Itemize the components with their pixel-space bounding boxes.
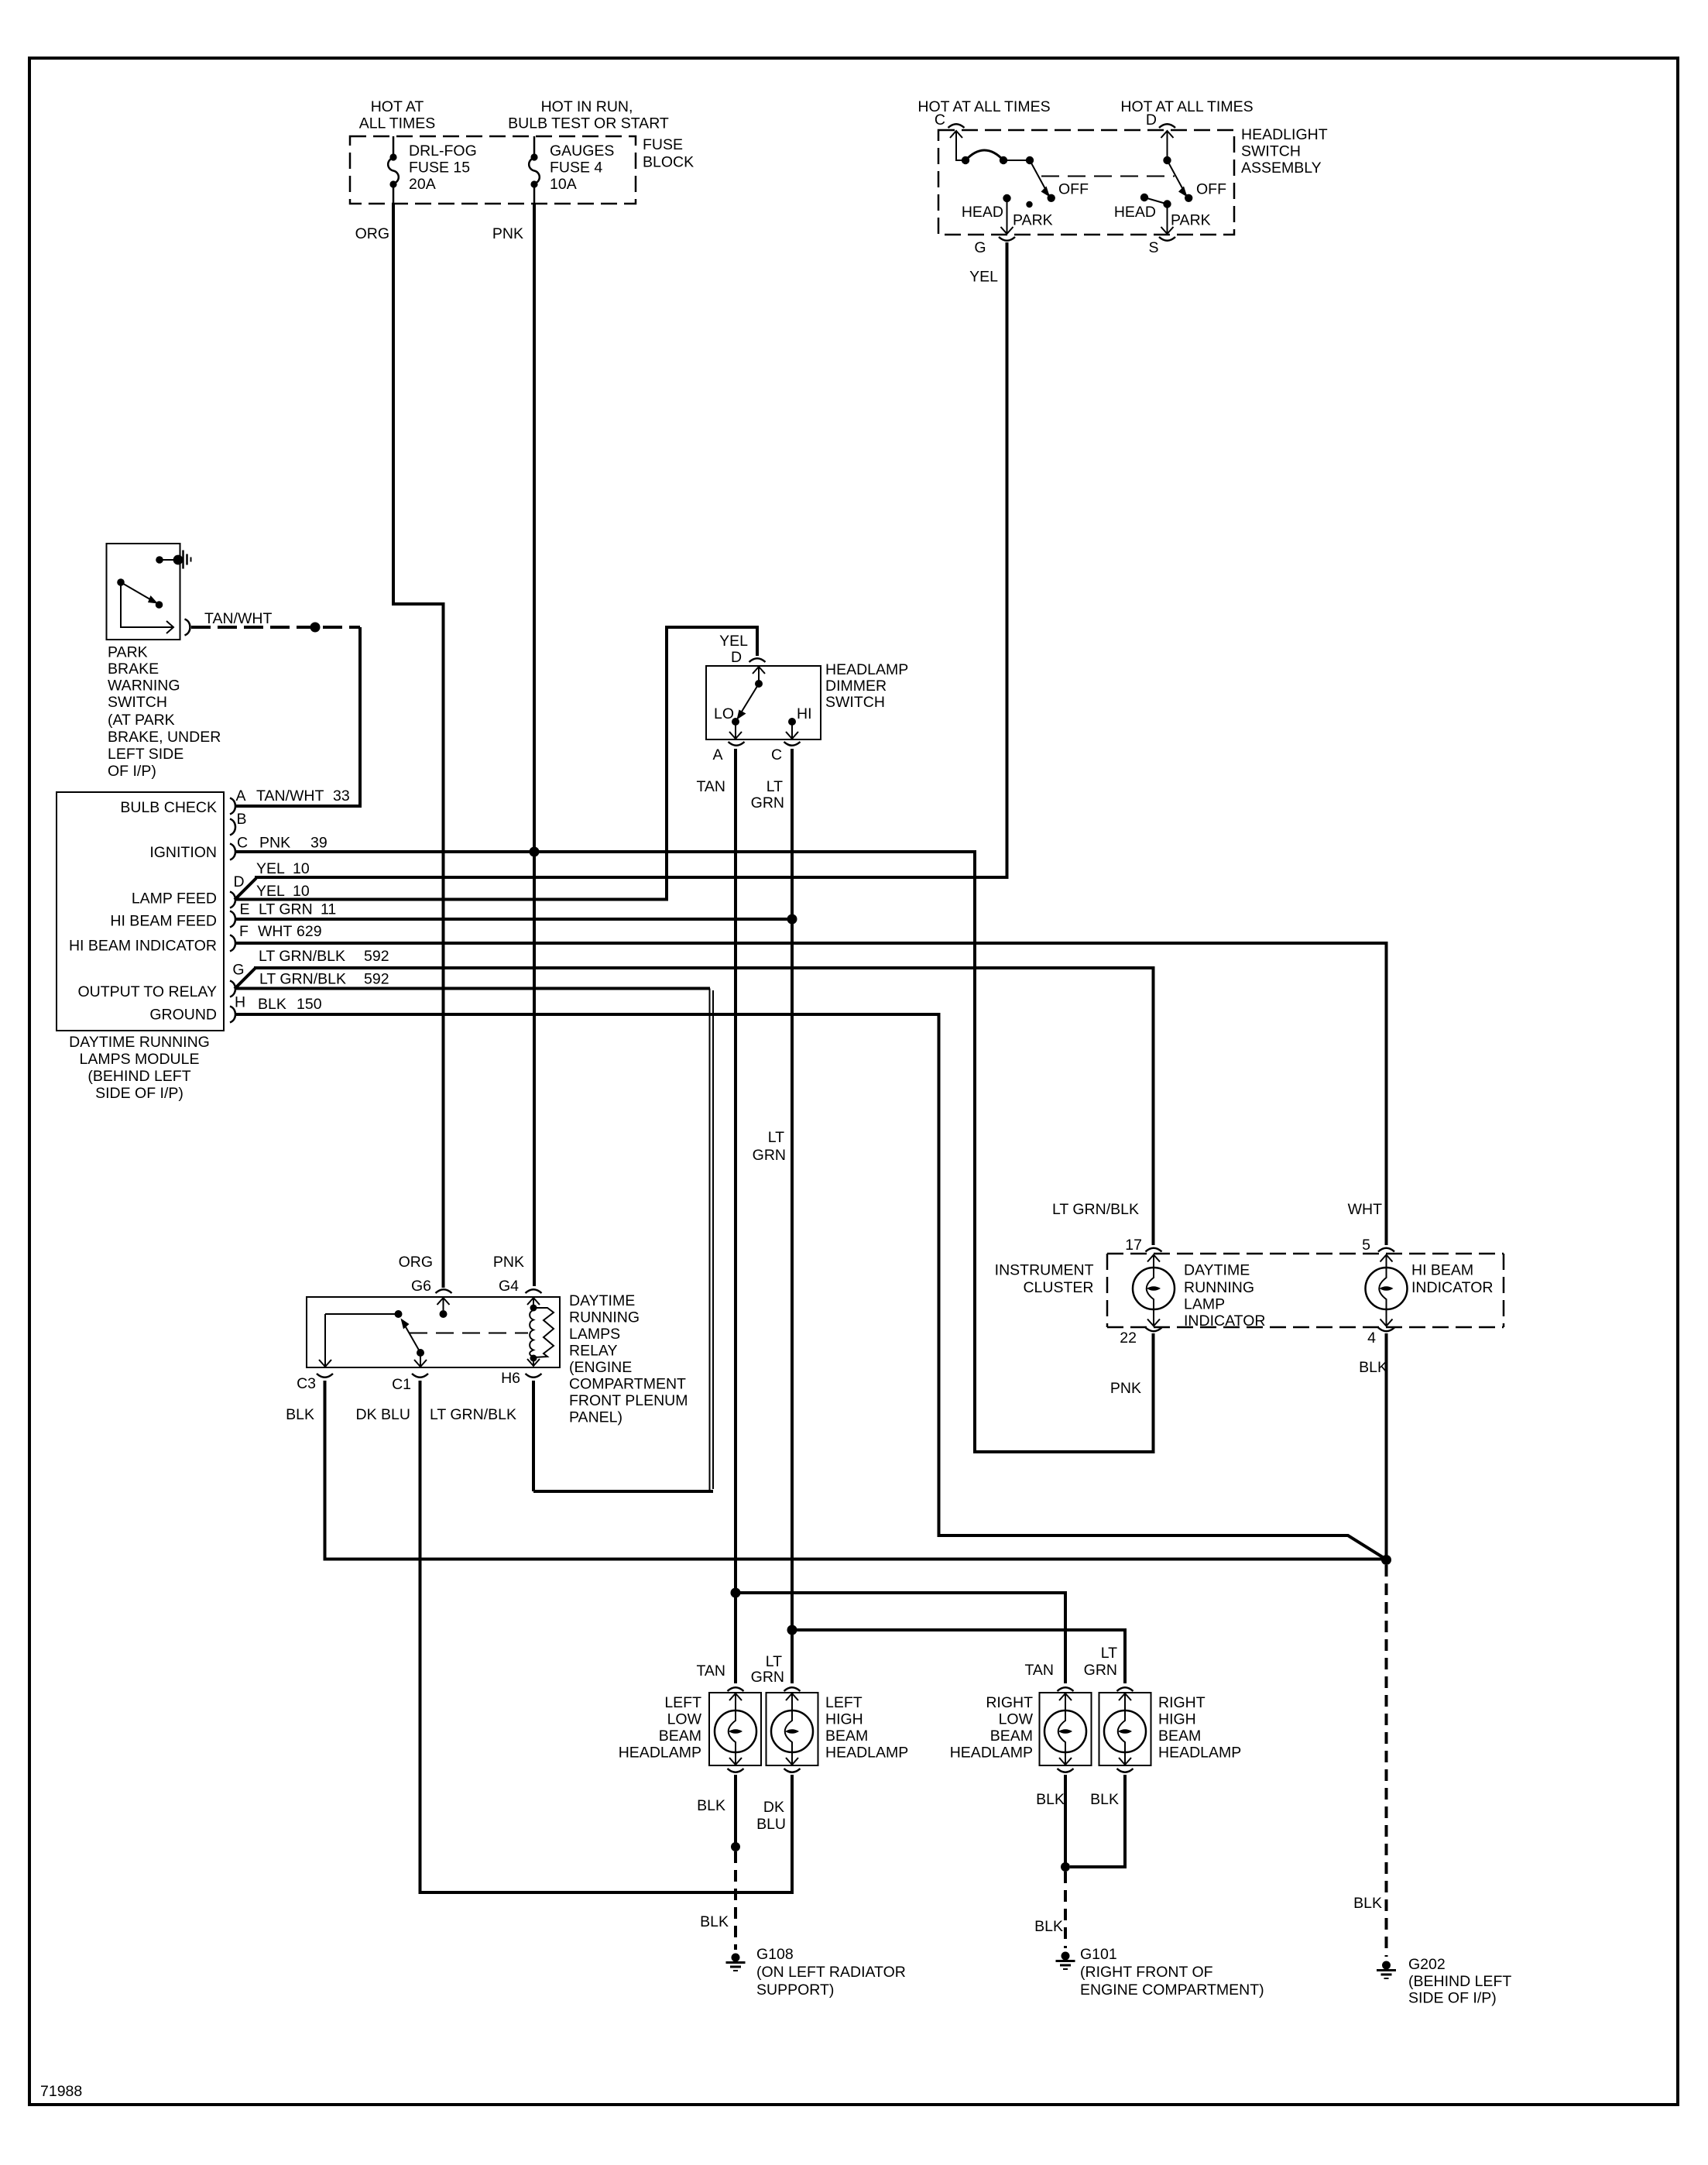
svg-text:BLK: BLK bbox=[286, 1406, 314, 1423]
svg-text:BLU: BLU bbox=[756, 1816, 786, 1833]
svg-text:GRN: GRN bbox=[751, 794, 784, 811]
svg-text:PNK: PNK bbox=[493, 1254, 524, 1271]
svg-text:HOT AT ALL TIMES: HOT AT ALL TIMES bbox=[1120, 98, 1253, 115]
svg-text:HOT IN RUN,: HOT IN RUN, bbox=[541, 98, 633, 115]
svg-text:BLK: BLK bbox=[1090, 1791, 1119, 1808]
svg-text:BLK: BLK bbox=[700, 1913, 729, 1930]
svg-text:C3: C3 bbox=[297, 1375, 316, 1392]
svg-text:DRL-FOG: DRL-FOG bbox=[409, 142, 477, 160]
svg-text:G: G bbox=[232, 962, 244, 979]
svg-text:OFF: OFF bbox=[1196, 181, 1226, 198]
svg-text:4: 4 bbox=[1367, 1330, 1376, 1347]
svg-text:G101: G101 bbox=[1080, 1946, 1117, 1963]
svg-text:LT GRN/BLK: LT GRN/BLK bbox=[259, 971, 346, 988]
svg-text:LAMP FEED: LAMP FEED bbox=[132, 890, 217, 908]
svg-text:RUNNING: RUNNING bbox=[1184, 1279, 1254, 1296]
svg-text:C1: C1 bbox=[392, 1376, 411, 1393]
svg-text:GAUGES: GAUGES bbox=[550, 142, 614, 160]
svg-text:FUSE 4: FUSE 4 bbox=[550, 160, 602, 177]
svg-text:YEL: YEL bbox=[719, 633, 748, 650]
svg-text:TAN: TAN bbox=[1024, 1662, 1054, 1679]
svg-text:HEAD: HEAD bbox=[1114, 204, 1156, 221]
svg-text:ALL TIMES: ALL TIMES bbox=[359, 115, 436, 132]
svg-text:RIGHT: RIGHT bbox=[986, 1694, 1033, 1711]
svg-text:DAYTIME: DAYTIME bbox=[569, 1292, 635, 1309]
svg-text:WHT: WHT bbox=[1348, 1201, 1382, 1218]
svg-text:BEAM: BEAM bbox=[1158, 1728, 1201, 1745]
svg-text:H: H bbox=[235, 994, 245, 1011]
svg-text:LEFT: LEFT bbox=[825, 1694, 863, 1711]
svg-text:(BEHIND LEFT: (BEHIND LEFT bbox=[1408, 1973, 1511, 1990]
svg-text:(RIGHT FRONT OF: (RIGHT FRONT OF bbox=[1080, 1964, 1213, 1981]
svg-text:ORG: ORG bbox=[399, 1254, 433, 1271]
svg-text:22: 22 bbox=[1120, 1330, 1137, 1347]
svg-text:71988: 71988 bbox=[40, 2083, 82, 2100]
svg-text:PARK: PARK bbox=[108, 644, 148, 661]
svg-text:ASSEMBLY: ASSEMBLY bbox=[1241, 160, 1322, 177]
svg-text:HI BEAM INDICATOR: HI BEAM INDICATOR bbox=[69, 938, 217, 955]
svg-text:LT GRN/BLK: LT GRN/BLK bbox=[1052, 1201, 1139, 1218]
svg-text:HIGH: HIGH bbox=[825, 1711, 863, 1728]
svg-text:LT: LT bbox=[768, 1129, 784, 1146]
svg-text:629: 629 bbox=[297, 923, 322, 940]
svg-text:OFF: OFF bbox=[1058, 181, 1089, 198]
svg-text:BRAKE: BRAKE bbox=[108, 660, 159, 678]
svg-text:HEADLAMP: HEADLAMP bbox=[1158, 1745, 1241, 1762]
svg-text:LT: LT bbox=[766, 1653, 782, 1670]
svg-text:WARNING: WARNING bbox=[108, 678, 180, 695]
svg-text:TAN: TAN bbox=[696, 778, 725, 795]
svg-text:SWITCH: SWITCH bbox=[1241, 143, 1301, 160]
svg-text:PNK: PNK bbox=[259, 835, 290, 852]
svg-text:FUSE 15: FUSE 15 bbox=[409, 160, 470, 177]
svg-text:5: 5 bbox=[1362, 1237, 1370, 1254]
svg-text:INDICATOR: INDICATOR bbox=[1184, 1312, 1265, 1330]
svg-text:HEADLAMP: HEADLAMP bbox=[950, 1745, 1033, 1762]
svg-text:HEADLAMP: HEADLAMP bbox=[825, 1745, 908, 1762]
svg-text:G: G bbox=[974, 239, 986, 256]
svg-text:YEL: YEL bbox=[256, 883, 285, 900]
svg-text:TAN/WHT: TAN/WHT bbox=[256, 787, 324, 805]
svg-text:150: 150 bbox=[297, 996, 322, 1013]
svg-text:SWITCH: SWITCH bbox=[825, 694, 885, 711]
svg-text:RIGHT: RIGHT bbox=[1158, 1694, 1206, 1711]
svg-text:IGNITION: IGNITION bbox=[149, 844, 217, 861]
svg-text:TAN/WHT: TAN/WHT bbox=[204, 610, 272, 627]
svg-text:20A: 20A bbox=[409, 176, 436, 193]
svg-text:HOT AT: HOT AT bbox=[371, 98, 424, 115]
svg-text:FUSE: FUSE bbox=[643, 136, 683, 153]
svg-text:BLK: BLK bbox=[697, 1797, 725, 1814]
svg-text:PANEL): PANEL) bbox=[569, 1409, 622, 1426]
svg-text:DIMMER: DIMMER bbox=[825, 678, 887, 695]
svg-text:COMPARTMENT: COMPARTMENT bbox=[569, 1376, 686, 1393]
svg-text:HEAD: HEAD bbox=[962, 204, 1003, 221]
svg-text:DAYTIME RUNNING: DAYTIME RUNNING bbox=[69, 1034, 210, 1051]
svg-text:C: C bbox=[237, 835, 248, 852]
svg-text:LOW: LOW bbox=[667, 1711, 702, 1728]
svg-text:LT GRN/BLK: LT GRN/BLK bbox=[259, 948, 345, 965]
svg-text:BRAKE, UNDER: BRAKE, UNDER bbox=[108, 729, 221, 746]
svg-text:BEAM: BEAM bbox=[825, 1728, 868, 1745]
svg-text:LT: LT bbox=[1101, 1645, 1117, 1662]
svg-text:OUTPUT TO RELAY: OUTPUT TO RELAY bbox=[77, 983, 217, 1000]
svg-text:(AT PARK: (AT PARK bbox=[108, 712, 175, 729]
svg-text:DK BLU: DK BLU bbox=[356, 1406, 410, 1423]
svg-text:10: 10 bbox=[293, 883, 310, 900]
svg-text:LAMP: LAMP bbox=[1184, 1296, 1225, 1313]
svg-text:G202: G202 bbox=[1408, 1956, 1446, 1973]
svg-text:LEFT SIDE: LEFT SIDE bbox=[108, 746, 183, 763]
svg-text:ORG: ORG bbox=[355, 225, 389, 242]
svg-text:A: A bbox=[235, 787, 245, 805]
svg-text:B: B bbox=[236, 811, 246, 828]
svg-text:LT: LT bbox=[767, 778, 783, 795]
svg-text:LAMPS: LAMPS bbox=[569, 1326, 620, 1343]
svg-text:BLK: BLK bbox=[1034, 1918, 1063, 1935]
svg-text:LEFT: LEFT bbox=[664, 1694, 701, 1711]
svg-text:10A: 10A bbox=[550, 176, 577, 193]
svg-text:RUNNING: RUNNING bbox=[569, 1309, 640, 1326]
svg-text:YEL: YEL bbox=[969, 269, 998, 286]
svg-text:(BEHIND LEFT: (BEHIND LEFT bbox=[87, 1068, 190, 1085]
svg-text:HIGH: HIGH bbox=[1158, 1711, 1196, 1728]
svg-text:SWITCH: SWITCH bbox=[108, 694, 167, 711]
svg-text:PARK: PARK bbox=[1171, 212, 1211, 229]
svg-text:OF I/P): OF I/P) bbox=[108, 763, 156, 780]
svg-text:LOW: LOW bbox=[999, 1711, 1034, 1728]
svg-text:BLOCK: BLOCK bbox=[643, 154, 694, 171]
svg-text:17: 17 bbox=[1125, 1237, 1142, 1254]
svg-text:HEADLAMP: HEADLAMP bbox=[825, 661, 908, 678]
svg-text:PNK: PNK bbox=[1110, 1380, 1141, 1397]
svg-text:SIDE OF I/P): SIDE OF I/P) bbox=[1408, 1990, 1497, 2007]
svg-text:G4: G4 bbox=[499, 1278, 519, 1295]
svg-text:HI BEAM: HI BEAM bbox=[1411, 1262, 1473, 1279]
svg-text:ENGINE COMPARTMENT): ENGINE COMPARTMENT) bbox=[1080, 1981, 1264, 1999]
svg-text:33: 33 bbox=[333, 787, 350, 805]
svg-text:G108: G108 bbox=[756, 1946, 794, 1963]
svg-text:F: F bbox=[239, 923, 249, 940]
svg-text:LO: LO bbox=[714, 705, 734, 722]
svg-text:39: 39 bbox=[310, 835, 328, 852]
svg-text:BULB TEST OR START: BULB TEST OR START bbox=[508, 115, 669, 132]
svg-text:E: E bbox=[239, 901, 249, 918]
svg-text:GRN: GRN bbox=[751, 1669, 784, 1686]
svg-text:GROUND: GROUND bbox=[149, 1007, 217, 1024]
svg-text:10: 10 bbox=[293, 860, 310, 877]
svg-text:DK: DK bbox=[763, 1799, 784, 1816]
svg-text:LAMPS MODULE: LAMPS MODULE bbox=[80, 1051, 200, 1068]
svg-text:H6: H6 bbox=[501, 1370, 520, 1387]
svg-text:HI: HI bbox=[797, 705, 812, 722]
svg-text:GRN: GRN bbox=[753, 1147, 786, 1164]
svg-text:592: 592 bbox=[364, 948, 389, 965]
svg-text:D: D bbox=[1146, 112, 1157, 129]
svg-text:A: A bbox=[712, 746, 722, 763]
svg-text:S: S bbox=[1148, 239, 1158, 256]
svg-text:FRONT PLENUM: FRONT PLENUM bbox=[569, 1392, 688, 1409]
svg-text:11: 11 bbox=[321, 901, 336, 918]
svg-text:G6: G6 bbox=[411, 1278, 431, 1295]
svg-text:BEAM: BEAM bbox=[990, 1728, 1033, 1745]
svg-text:YEL: YEL bbox=[256, 860, 285, 877]
svg-text:SUPPORT): SUPPORT) bbox=[756, 1981, 834, 1999]
svg-text:(ENGINE: (ENGINE bbox=[569, 1359, 632, 1376]
svg-text:HI BEAM FEED: HI BEAM FEED bbox=[110, 913, 217, 930]
svg-text:BEAM: BEAM bbox=[659, 1728, 701, 1745]
svg-text:592: 592 bbox=[364, 971, 389, 988]
svg-text:BLK: BLK bbox=[1036, 1791, 1065, 1808]
svg-text:WHT: WHT bbox=[258, 923, 292, 940]
svg-text:TAN: TAN bbox=[696, 1662, 725, 1680]
svg-text:INSTRUMENT: INSTRUMENT bbox=[995, 1262, 1094, 1279]
svg-text:C: C bbox=[771, 746, 782, 763]
svg-text:C: C bbox=[935, 112, 945, 129]
svg-text:INDICATOR: INDICATOR bbox=[1411, 1279, 1493, 1296]
svg-text:DAYTIME: DAYTIME bbox=[1184, 1262, 1250, 1279]
svg-text:D: D bbox=[233, 873, 244, 890]
svg-text:BULB CHECK: BULB CHECK bbox=[120, 799, 217, 816]
svg-text:GRN: GRN bbox=[1084, 1662, 1117, 1679]
svg-text:LT GRN: LT GRN bbox=[259, 901, 313, 918]
svg-text:BLK: BLK bbox=[1359, 1359, 1387, 1376]
svg-text:HEADLIGHT: HEADLIGHT bbox=[1241, 126, 1328, 143]
svg-text:(ON LEFT RADIATOR: (ON LEFT RADIATOR bbox=[756, 1964, 906, 1981]
svg-text:RELAY: RELAY bbox=[569, 1343, 618, 1360]
svg-text:SIDE OF I/P): SIDE OF I/P) bbox=[95, 1085, 183, 1102]
svg-text:BLK: BLK bbox=[1353, 1895, 1382, 1912]
svg-text:LT GRN/BLK: LT GRN/BLK bbox=[430, 1406, 516, 1423]
svg-text:BLK: BLK bbox=[258, 996, 286, 1013]
svg-text:D: D bbox=[731, 649, 742, 666]
svg-text:HEADLAMP: HEADLAMP bbox=[619, 1745, 701, 1762]
svg-text:PNK: PNK bbox=[492, 225, 523, 242]
svg-text:CLUSTER: CLUSTER bbox=[1023, 1279, 1093, 1296]
svg-text:PARK: PARK bbox=[1013, 212, 1053, 229]
